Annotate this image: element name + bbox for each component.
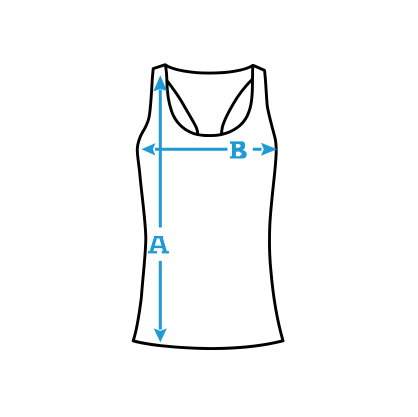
vertical measure line A (two segments, gap at letter) xyxy=(159,90,162,330)
tank top outer silhouette xyxy=(133,65,283,349)
horizontal measure line B (two segments, gap at letter) xyxy=(155,148,262,151)
racerback scoop xyxy=(165,65,252,135)
arrowhead down xyxy=(154,328,167,342)
arrowhead up xyxy=(153,75,167,91)
label A xyxy=(148,236,169,253)
left armhole leaf xyxy=(167,81,198,135)
arrowhead left xyxy=(141,143,155,155)
arrowhead right xyxy=(261,143,277,156)
label B xyxy=(230,141,247,158)
right armhole leaf xyxy=(222,80,253,135)
